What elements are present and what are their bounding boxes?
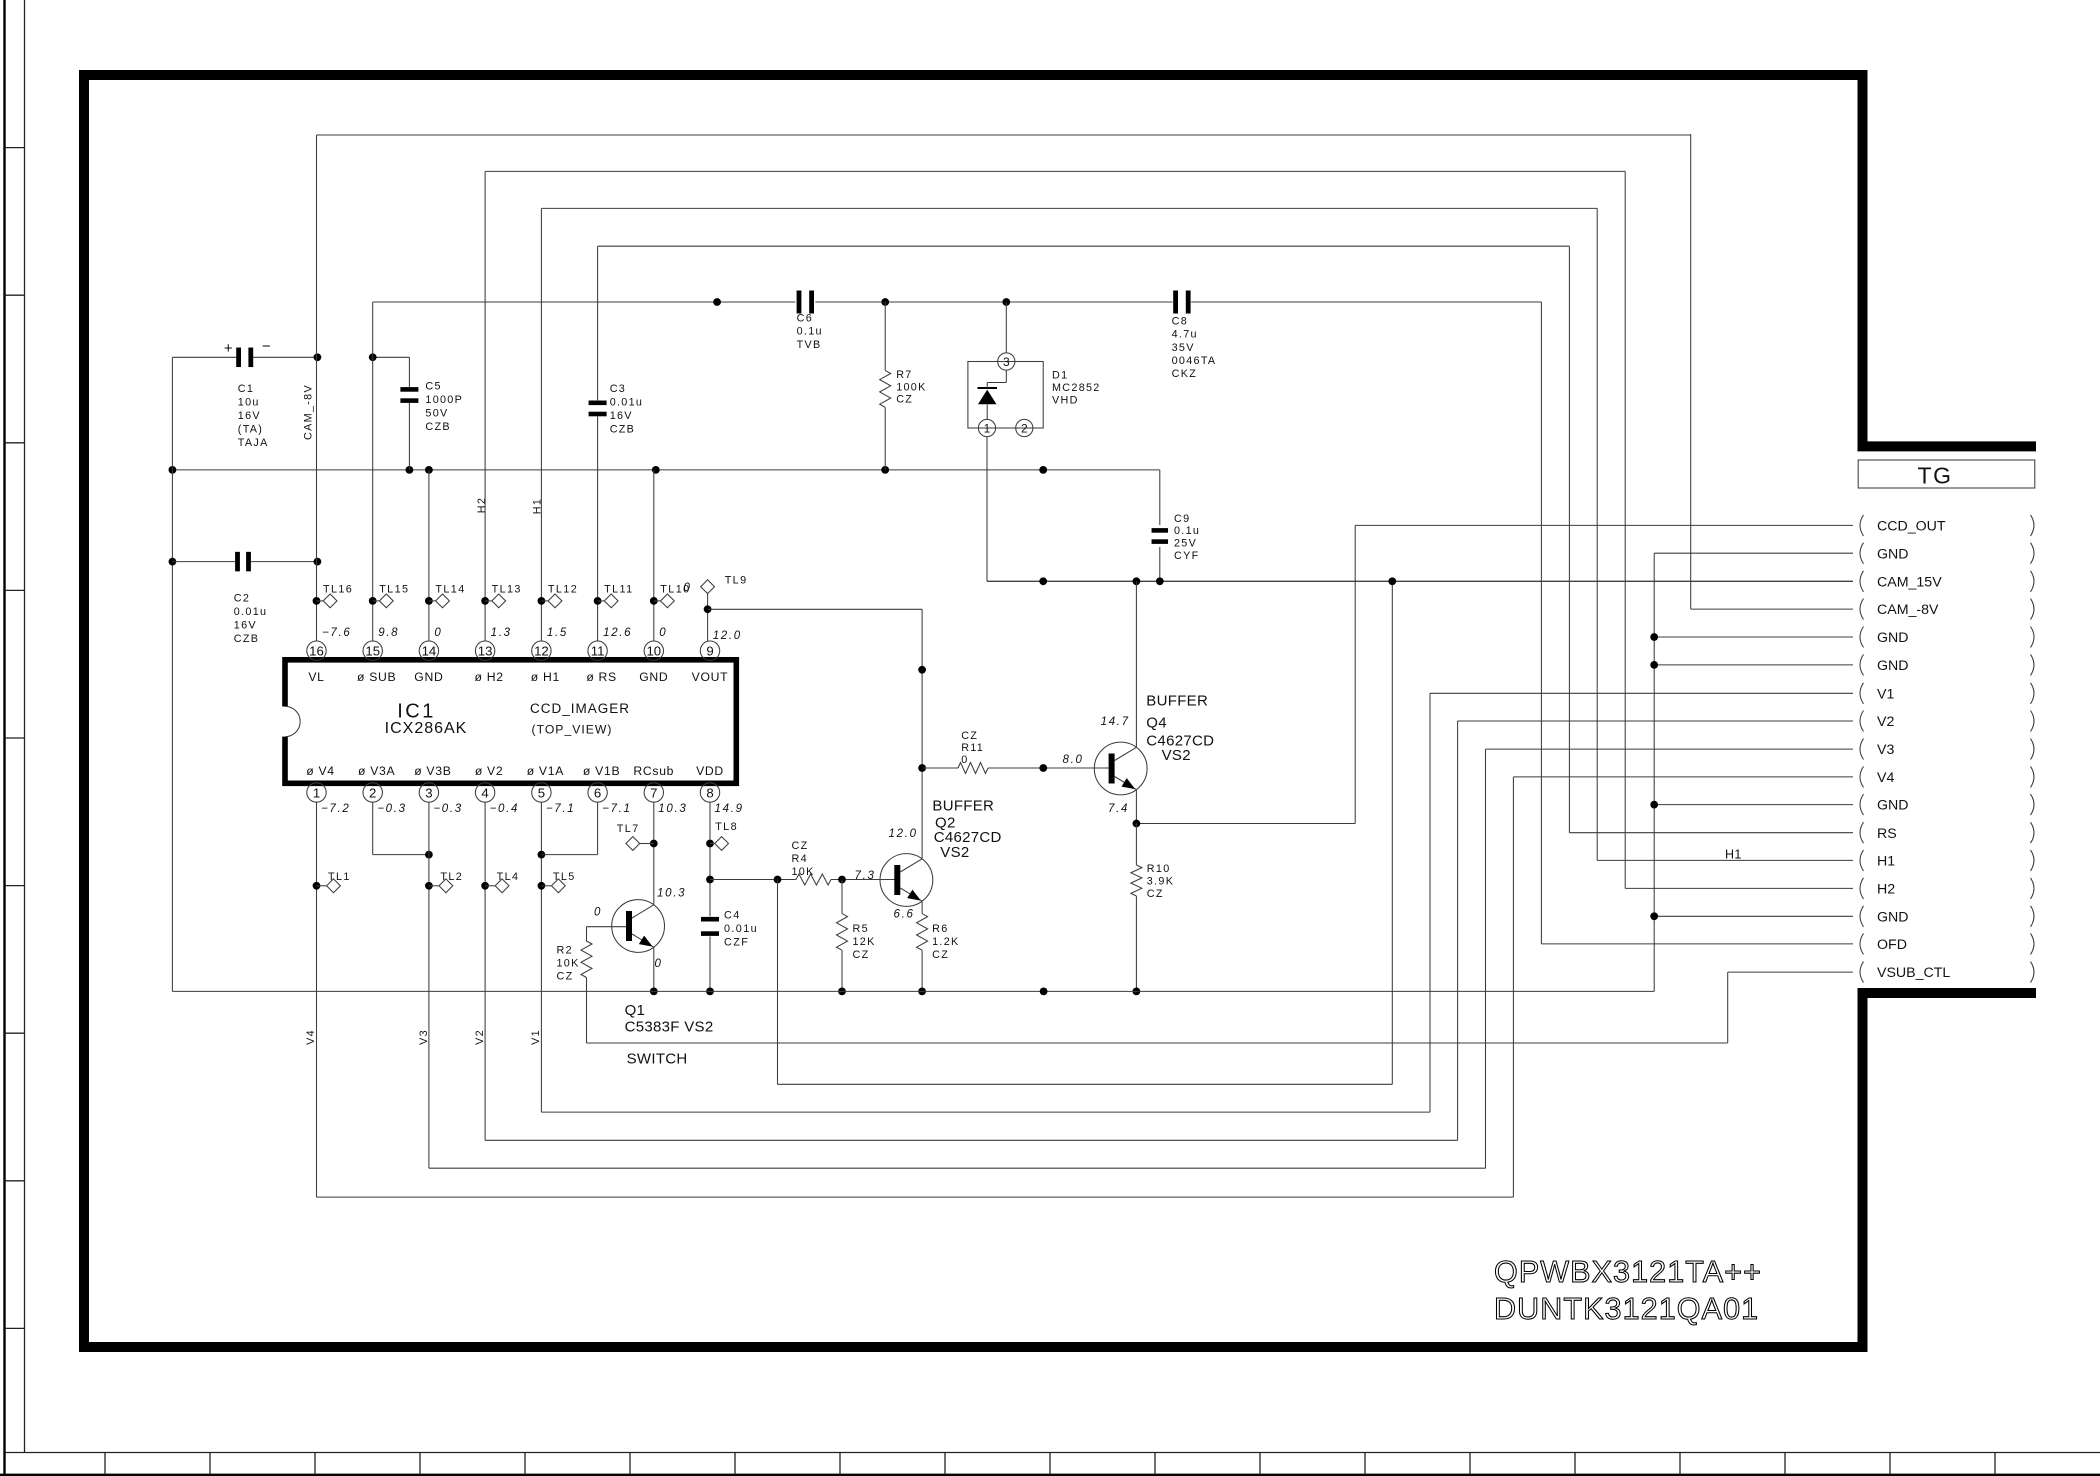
svg-text:CAM_-8V: CAM_-8V xyxy=(302,384,314,440)
svg-text:0: 0 xyxy=(594,907,602,919)
svg-text:(TOP_VIEW): (TOP_VIEW) xyxy=(532,722,613,736)
svg-text:GND: GND xyxy=(1877,909,1909,925)
svg-text:TL7: TL7 xyxy=(617,823,640,835)
svg-text:ø SUB: ø SUB xyxy=(357,670,396,684)
svg-text:(TA): (TA) xyxy=(238,423,263,435)
svg-text:14.9: 14.9 xyxy=(715,803,744,815)
svg-text:C8: C8 xyxy=(1172,315,1188,327)
svg-text:VOUT: VOUT xyxy=(692,670,729,684)
svg-text:TL16: TL16 xyxy=(323,583,353,595)
svg-text:3: 3 xyxy=(1003,355,1010,369)
svg-text:H2: H2 xyxy=(1877,882,1895,898)
svg-text:6.6: 6.6 xyxy=(894,909,915,921)
svg-text:H2: H2 xyxy=(476,497,488,514)
svg-text:TL4: TL4 xyxy=(497,871,520,883)
svg-text:VS2: VS2 xyxy=(1162,747,1191,764)
svg-text:0: 0 xyxy=(434,627,442,639)
svg-text:+: + xyxy=(224,340,233,357)
svg-text:7: 7 xyxy=(650,785,657,800)
svg-text:MC2852: MC2852 xyxy=(1052,382,1101,394)
svg-text:0.1u: 0.1u xyxy=(797,326,823,338)
svg-text:H1: H1 xyxy=(1877,854,1895,870)
svg-text:TL8: TL8 xyxy=(715,821,738,833)
svg-text:D1: D1 xyxy=(1052,369,1068,381)
svg-text:TL14: TL14 xyxy=(435,583,465,595)
svg-text:3: 3 xyxy=(425,785,432,800)
svg-text:C9: C9 xyxy=(1174,513,1190,525)
svg-text:2: 2 xyxy=(1021,421,1028,435)
svg-text:Q1: Q1 xyxy=(625,1002,646,1019)
svg-text:TVB: TVB xyxy=(797,339,822,351)
svg-text:0: 0 xyxy=(961,754,968,766)
svg-text:R6: R6 xyxy=(932,923,948,935)
svg-text:BUFFER: BUFFER xyxy=(1146,692,1208,709)
svg-text:ø V1B: ø V1B xyxy=(583,764,620,778)
svg-text:−7.1: −7.1 xyxy=(546,803,576,815)
svg-text:V2: V2 xyxy=(1877,714,1894,730)
svg-text:−7.2: −7.2 xyxy=(321,803,351,815)
svg-text:TL2: TL2 xyxy=(440,871,463,883)
svg-text:Q4: Q4 xyxy=(1146,714,1167,731)
svg-text:V4: V4 xyxy=(1877,770,1894,786)
svg-text:1: 1 xyxy=(984,421,991,435)
svg-text:TL11: TL11 xyxy=(604,583,633,595)
svg-text:GND: GND xyxy=(1877,798,1909,814)
svg-text:CZ: CZ xyxy=(557,971,574,983)
svg-text:10: 10 xyxy=(646,644,661,659)
svg-text:VS2: VS2 xyxy=(940,844,969,861)
svg-text:R11: R11 xyxy=(961,742,984,754)
svg-text:8: 8 xyxy=(706,785,713,800)
svg-text:−0.3: −0.3 xyxy=(433,803,463,815)
svg-text:9: 9 xyxy=(706,644,713,659)
svg-text:12K: 12K xyxy=(853,936,876,948)
svg-text:C6: C6 xyxy=(797,312,813,324)
svg-text:CZ: CZ xyxy=(792,840,809,852)
svg-text:CZ: CZ xyxy=(961,730,978,742)
svg-text:VSUB_CTL: VSUB_CTL xyxy=(1877,965,1950,981)
svg-text:12.0: 12.0 xyxy=(889,828,918,840)
svg-text:TG: TG xyxy=(1918,462,1953,488)
svg-text:V3: V3 xyxy=(418,1029,430,1045)
svg-text:ICX286AK: ICX286AK xyxy=(385,720,468,737)
svg-text:TL5: TL5 xyxy=(553,871,576,883)
svg-text:GND: GND xyxy=(414,670,443,684)
svg-text:−7.1: −7.1 xyxy=(602,803,632,815)
svg-text:C4: C4 xyxy=(724,909,741,921)
svg-text:11: 11 xyxy=(591,644,605,659)
svg-text:25V: 25V xyxy=(1174,538,1197,550)
svg-text:R7: R7 xyxy=(896,369,912,381)
svg-text:1.5: 1.5 xyxy=(547,627,568,639)
svg-text:1.3: 1.3 xyxy=(491,627,512,639)
svg-text:BUFFER: BUFFER xyxy=(932,797,994,814)
svg-text:−: − xyxy=(262,338,271,355)
svg-text:6: 6 xyxy=(594,785,601,800)
svg-text:RCsub: RCsub xyxy=(633,764,674,778)
svg-text:7.3: 7.3 xyxy=(855,870,876,882)
svg-text:14.7: 14.7 xyxy=(1101,716,1130,728)
svg-text:CZF: CZF xyxy=(724,936,749,948)
svg-text:GND: GND xyxy=(639,670,668,684)
svg-text:SWITCH: SWITCH xyxy=(627,1050,688,1067)
svg-text:0.01u: 0.01u xyxy=(610,396,644,408)
svg-text:RS: RS xyxy=(1877,826,1897,842)
svg-text:0: 0 xyxy=(655,958,663,970)
svg-text:9.8: 9.8 xyxy=(378,627,399,639)
svg-text:CZ: CZ xyxy=(1147,888,1164,900)
svg-text:R10: R10 xyxy=(1147,863,1171,875)
svg-text:1: 1 xyxy=(313,785,320,800)
svg-text:16: 16 xyxy=(309,644,324,659)
svg-text:1.2K: 1.2K xyxy=(932,936,959,948)
svg-text:8.0: 8.0 xyxy=(1063,754,1084,766)
svg-text:TL12: TL12 xyxy=(548,583,578,595)
svg-text:10K: 10K xyxy=(557,958,580,970)
svg-text:DUNTK3121QA01: DUNTK3121QA01 xyxy=(1494,1292,1759,1326)
svg-text:CZ: CZ xyxy=(896,394,913,406)
svg-text:−0.4: −0.4 xyxy=(490,803,520,815)
svg-text:100K: 100K xyxy=(896,381,926,393)
svg-text:R2: R2 xyxy=(557,945,573,957)
svg-text:ø H2: ø H2 xyxy=(474,670,503,684)
svg-text:VL: VL xyxy=(308,670,324,684)
svg-text:GND: GND xyxy=(1877,658,1909,674)
svg-text:12.6: 12.6 xyxy=(603,627,632,639)
svg-text:7.4: 7.4 xyxy=(1108,803,1129,815)
svg-text:TL1: TL1 xyxy=(328,871,351,883)
svg-text:OFD: OFD xyxy=(1877,937,1907,953)
svg-text:QPWBX3121TA++: QPWBX3121TA++ xyxy=(1494,1255,1762,1289)
svg-text:2: 2 xyxy=(369,785,376,800)
svg-text:C5: C5 xyxy=(425,380,441,392)
svg-text:VHD: VHD xyxy=(1052,395,1079,407)
svg-text:16V: 16V xyxy=(610,410,633,422)
svg-text:1000P: 1000P xyxy=(425,394,463,406)
svg-text:TAJA: TAJA xyxy=(238,437,269,449)
svg-text:CZB: CZB xyxy=(234,633,259,645)
svg-text:ø V1A: ø V1A xyxy=(527,764,565,778)
svg-text:ø V3A: ø V3A xyxy=(358,764,396,778)
svg-text:ø V4: ø V4 xyxy=(306,764,335,778)
svg-text:10.3: 10.3 xyxy=(658,803,687,815)
svg-text:15: 15 xyxy=(365,644,380,659)
svg-text:4: 4 xyxy=(481,785,488,800)
svg-text:H1: H1 xyxy=(531,498,543,515)
svg-text:10u: 10u xyxy=(238,396,260,408)
svg-text:GND: GND xyxy=(1877,630,1909,646)
svg-text:H1: H1 xyxy=(1725,848,1742,862)
svg-text:TL9: TL9 xyxy=(725,574,748,586)
svg-text:0.01u: 0.01u xyxy=(724,923,758,935)
svg-text:12: 12 xyxy=(534,644,549,659)
svg-text:3.9K: 3.9K xyxy=(1147,876,1174,888)
svg-text:V2: V2 xyxy=(474,1029,486,1045)
svg-text:CCD_OUT: CCD_OUT xyxy=(1877,519,1946,535)
svg-text:10K: 10K xyxy=(792,866,815,878)
svg-text:−7.6: −7.6 xyxy=(322,627,352,639)
svg-text:0.01u: 0.01u xyxy=(234,606,268,618)
svg-text:TL15: TL15 xyxy=(379,583,409,595)
svg-text:VDD: VDD xyxy=(696,764,724,778)
svg-text:16V: 16V xyxy=(234,619,257,631)
svg-text:12.0: 12.0 xyxy=(713,630,742,642)
svg-text:CAM_15V: CAM_15V xyxy=(1877,574,1942,590)
svg-text:R4: R4 xyxy=(792,853,808,865)
svg-text:0.1u: 0.1u xyxy=(1174,525,1200,537)
svg-text:CZ: CZ xyxy=(853,949,870,961)
svg-text:10.3: 10.3 xyxy=(657,888,686,900)
svg-text:ø RS: ø RS xyxy=(586,670,617,684)
svg-text:ø H1: ø H1 xyxy=(531,670,560,684)
svg-text:16V: 16V xyxy=(238,410,261,422)
svg-text:14: 14 xyxy=(422,644,437,659)
svg-text:R5: R5 xyxy=(853,923,869,935)
svg-text:4.7u: 4.7u xyxy=(1172,329,1198,341)
svg-text:TL13: TL13 xyxy=(492,583,522,595)
svg-text:CYF: CYF xyxy=(1174,550,1200,562)
svg-text:35V: 35V xyxy=(1172,342,1195,354)
svg-text:V3: V3 xyxy=(1877,742,1894,758)
svg-text:ø V3B: ø V3B xyxy=(414,764,451,778)
svg-text:V1: V1 xyxy=(1877,686,1894,702)
svg-text:C5383F VS2: C5383F VS2 xyxy=(625,1018,714,1035)
svg-text:5: 5 xyxy=(538,785,545,800)
svg-text:0: 0 xyxy=(659,627,667,639)
svg-text:CKZ: CKZ xyxy=(1172,368,1198,380)
svg-text:C3: C3 xyxy=(610,383,626,395)
svg-text:0: 0 xyxy=(684,582,692,594)
svg-text:CZ: CZ xyxy=(932,949,949,961)
svg-text:CAM_-8V: CAM_-8V xyxy=(1877,602,1939,618)
svg-text:0046TA: 0046TA xyxy=(1172,355,1217,367)
svg-text:50V: 50V xyxy=(425,407,448,419)
svg-text:CZB: CZB xyxy=(610,423,636,435)
svg-text:GND: GND xyxy=(1877,546,1909,562)
svg-text:V4: V4 xyxy=(305,1029,317,1045)
svg-text:ø V2: ø V2 xyxy=(475,764,504,778)
svg-text:CCD_IMAGER: CCD_IMAGER xyxy=(530,701,630,716)
svg-text:−0.3: −0.3 xyxy=(377,803,407,815)
svg-text:C1: C1 xyxy=(238,383,254,395)
svg-text:V1: V1 xyxy=(530,1029,542,1045)
svg-text:CZB: CZB xyxy=(425,421,451,433)
svg-text:13: 13 xyxy=(478,644,493,659)
svg-text:C2: C2 xyxy=(234,592,250,604)
